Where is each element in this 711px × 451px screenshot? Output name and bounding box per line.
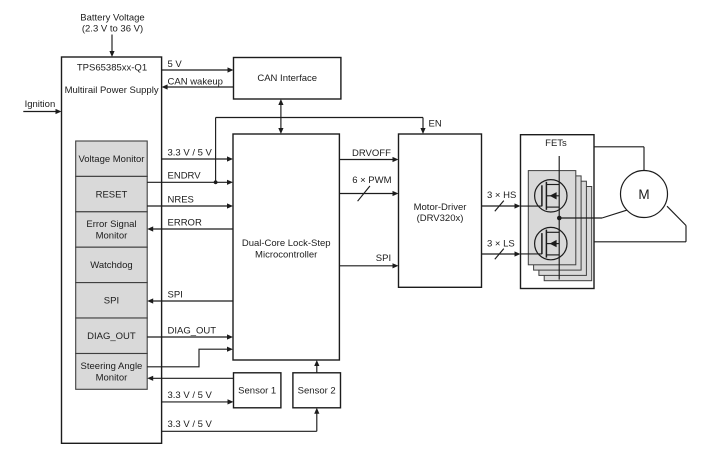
wire 3.3 V / 5 V TPS to MCU [162,147,233,161]
FET stack layer 3 [539,181,587,275]
svg-text:M: M [638,187,649,202]
block DIAG_OUT [76,318,148,354]
svg-text:CAN Interface: CAN Interface [257,73,317,84]
block Error Signal Monitor [76,212,148,247]
block FETs [521,135,595,289]
wire NRES TPS to MCU [147,194,233,208]
svg-text:6 × PWM: 6 × PWM [352,175,391,186]
svg-text:Watchdog: Watchdog [90,260,132,271]
svg-text:Voltage Monitor: Voltage Monitor [78,154,144,165]
label Battery Voltage input [80,12,144,34]
svg-text:CAN wakeup: CAN wakeup [168,76,223,87]
wire 3.3 V / 5 V TPS to Sensor 2 [162,408,320,432]
svg-text:3 × LS: 3 × LS [487,238,515,249]
svg-text:Motor-Driver: Motor-Driver [414,202,467,213]
svg-text:Ignition: Ignition [25,99,56,110]
block RESET [76,176,148,211]
wire 6 x PWM bus MCU to Motor-Driver [339,175,398,201]
svg-text:Error Signal: Error Signal [86,219,136,230]
wire Steering Angle Monitor to MCU [147,347,233,367]
wire battery voltage arrow [109,35,114,58]
transistor high-side MOSFET [521,180,568,212]
svg-text:ENDRV: ENDRV [168,171,202,182]
wire DIAG_OUT TPS to MCU [147,325,233,339]
block SPI [76,283,148,318]
wire SPI MCU to TPS [147,289,233,303]
svg-text:Steering Angle: Steering Angle [81,361,143,372]
wire 3.3 V / 5 V TPS to Sensor 1 [162,390,234,405]
block Sensor 2 [293,373,341,408]
wire phase A FETs to motor top [594,147,644,171]
svg-text:DIAG_OUT: DIAG_OUT [87,331,136,342]
block CAN Interface [234,58,341,100]
svg-text:3 × HS: 3 × HS [487,190,516,201]
node phase junction [557,216,562,221]
svg-text:5 V: 5 V [168,59,183,70]
wire 3 x HS bus Motor-Driver to FETs [482,190,521,212]
svg-text:Sensor 1: Sensor 1 [238,386,276,397]
wire CAN to MCU bidirectional [278,99,283,134]
svg-text:3.3 V / 5 V: 3.3 V / 5 V [168,390,213,401]
svg-text:(DRV320x): (DRV320x) [417,213,464,224]
wire Sensor 2 to MCU [314,360,319,373]
svg-text:RESET: RESET [96,189,128,200]
svg-text:Microcontroller: Microcontroller [255,250,317,261]
svg-text:3.3 V / 5 V: 3.3 V / 5 V [168,147,213,158]
wire ERROR MCU to TPS [147,217,233,231]
label Ignition input [25,99,56,110]
wire Sensor 1 to Steering Angle Monitor [147,376,233,381]
svg-text:SPI: SPI [168,289,183,300]
svg-text:Dual-Core Lock-Step: Dual-Core Lock-Step [242,238,331,249]
FET stack layer 4 [544,187,592,281]
block Dual-Core Lock-Step Microcontroller [233,134,339,360]
wire 5 V TPS to CAN [162,59,234,72]
svg-text:Monitor: Monitor [96,231,128,242]
wire EN ENDRV junction to Motor-Driver [216,118,442,183]
FET stack layer 2 [534,176,582,270]
svg-text:3.3 V / 5 V: 3.3 V / 5 V [168,419,213,430]
wire phase B junction to motor [559,210,626,218]
wire phase C FETs to motor bottom [594,206,686,242]
wire 3 x LS bus Motor-Driver to FETs [482,238,521,259]
block Watchdog [76,247,148,282]
svg-text:Multirail Power Supply: Multirail Power Supply [65,85,159,96]
wire ENDRV TPS to MCU [147,171,233,185]
svg-text:DRVOFF: DRVOFF [352,148,391,159]
svg-text:Monitor: Monitor [96,372,128,383]
block Motor-Driver DRV320x [399,134,482,287]
block Sensor 1 [234,373,281,408]
block Steering Angle Monitor [76,354,148,390]
wire ignition arrow [23,109,61,114]
svg-text:(2.3 V to 36 V): (2.3 V to 36 V) [82,24,143,35]
svg-text:SPI: SPI [104,296,119,307]
wire SPI MCU to Motor-Driver [339,253,398,269]
wire CAN wakeup CAN to TPS [162,76,234,89]
svg-text:ERROR: ERROR [168,217,202,228]
FET stack layer 1 front [528,171,576,265]
svg-text:EN: EN [429,119,442,130]
svg-text:FETs: FETs [545,138,567,149]
svg-text:Sensor 2: Sensor 2 [298,386,336,397]
block Voltage Monitor [76,141,148,176]
wire drain-source vertical [558,156,560,280]
svg-text:TPS65385xx-Q1: TPS65385xx-Q1 [77,62,147,73]
transistor low-side MOSFET [521,227,568,259]
svg-text:Battery Voltage: Battery Voltage [80,12,144,23]
node ENDRV junction [214,180,218,184]
svg-text:DIAG_OUT: DIAG_OUT [168,325,217,336]
wire DRVOFF MCU to Motor-Driver [339,148,398,162]
block TPS65385xx-Q1 Multirail Power Supply [62,57,162,443]
svg-text:SPI: SPI [376,253,391,264]
svg-text:NRES: NRES [168,194,194,205]
motor M [621,171,668,218]
